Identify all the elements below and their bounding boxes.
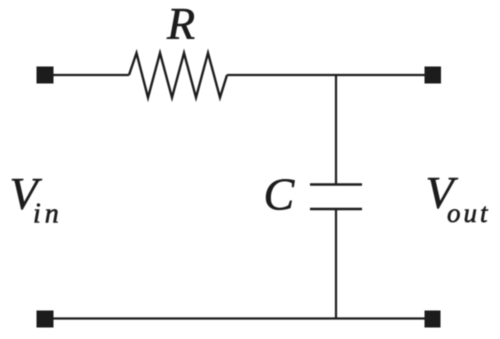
capacitor C top plate	[310, 183, 362, 185]
wire top-right	[227, 74, 425, 76]
wire top-left	[53, 74, 129, 76]
svg-text:out: out	[447, 198, 491, 228]
wire bottom	[53, 317, 425, 319]
svg-text:in: in	[33, 199, 63, 230]
svg-text:R: R	[166, 0, 195, 49]
resistor R	[129, 53, 227, 98]
capacitor C bottom plate	[310, 208, 362, 210]
terminal top-right (Vout +)	[425, 67, 442, 84]
terminal bottom-left (Vin -)	[37, 311, 54, 328]
svg-text:C: C	[264, 169, 296, 220]
terminal bottom-right (Vout -)	[425, 311, 441, 328]
terminal top-left (Vin +)	[37, 67, 54, 84]
wire capacitor top lead	[335, 74, 337, 185]
wire capacitor bottom lead	[335, 209, 337, 320]
